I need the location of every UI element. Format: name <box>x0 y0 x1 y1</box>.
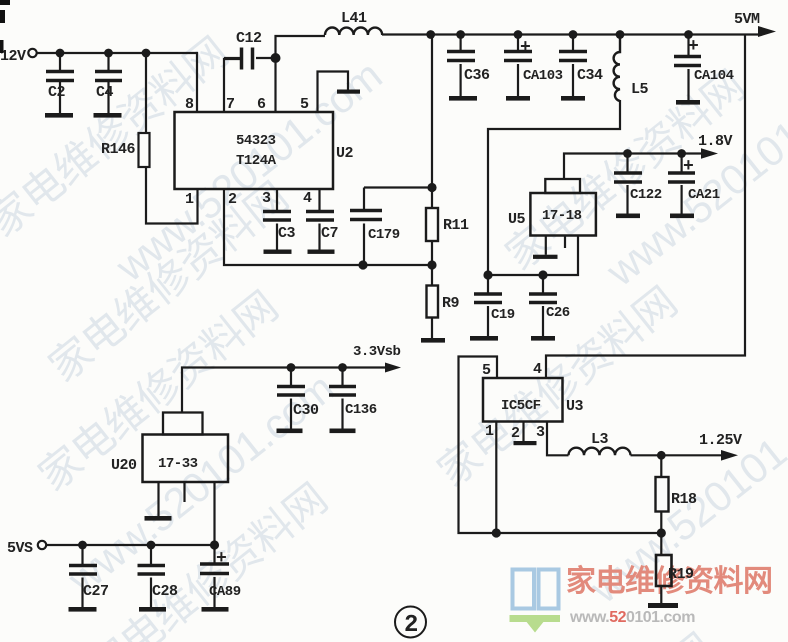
svg-text:U2: U2 <box>336 145 354 162</box>
svg-text:2: 2 <box>228 191 237 208</box>
op-amp U3 box <box>483 378 563 422</box>
capacitor C12 <box>224 48 253 70</box>
ground near U2 pin5 <box>337 90 360 94</box>
op-amp U2 box <box>175 112 334 189</box>
arrow 1.25V <box>721 450 738 461</box>
inductor L5 <box>614 35 620 102</box>
svg-text:C136: C136 <box>345 402 377 418</box>
regulator U5 <box>530 179 596 259</box>
svg-text:CA21: CA21 <box>688 187 720 203</box>
capacitor C30 <box>277 368 306 434</box>
svg-text:+: + <box>520 38 530 58</box>
resistor R18 <box>656 477 669 512</box>
wire: C12 right to node <box>256 57 276 59</box>
wire: C179 top link <box>364 186 432 188</box>
svg-text:6: 6 <box>257 96 266 113</box>
capacitor CA103 <box>504 35 532 101</box>
wire: U2 pin2 rail <box>224 189 432 265</box>
ground U3 pin2 <box>514 422 537 446</box>
svg-text:C19: C19 <box>491 307 515 323</box>
arrow 5VM <box>758 26 776 37</box>
capacitor C122 <box>614 154 642 219</box>
wire: 3.3Vsb rail <box>182 368 392 413</box>
svg-text:54323: 54323 <box>236 133 276 149</box>
terminal 12V <box>28 49 36 57</box>
wire: pin7 to C12 <box>224 59 241 112</box>
svg-text:R11: R11 <box>443 217 469 234</box>
svg-text:17-33: 17-33 <box>158 456 198 472</box>
wire: 5VS rail <box>46 482 215 545</box>
wire: R18 stems <box>660 455 662 533</box>
resistor R9 <box>421 286 445 343</box>
wire: R11 column <box>431 35 433 339</box>
svg-text:C3: C3 <box>278 225 296 242</box>
svg-text:4: 4 <box>533 361 542 378</box>
svg-text:L5: L5 <box>631 81 649 98</box>
svg-text:+: + <box>688 37 698 57</box>
svg-text:+: + <box>216 549 226 569</box>
svg-text:IC5CF: IC5CF <box>501 398 541 414</box>
svg-text:5: 5 <box>300 96 309 113</box>
wire: L41 to rail <box>382 33 762 35</box>
svg-text:T124A: T124A <box>236 153 277 169</box>
svg-text:R18: R18 <box>671 491 697 508</box>
svg-text:2: 2 <box>511 425 520 442</box>
regulator U20 <box>143 413 229 521</box>
svg-text:L3: L3 <box>591 431 609 448</box>
capacitor CA104 <box>674 35 701 105</box>
capacitor C3 <box>263 189 292 254</box>
svg-text:C26: C26 <box>546 305 570 321</box>
svg-text:U20: U20 <box>111 457 137 474</box>
capacitor C2 <box>45 53 74 118</box>
wire: L5 down-left feed to U5 rail <box>488 100 620 275</box>
svg-text:C4: C4 <box>96 84 114 101</box>
svg-text:2: 2 <box>404 612 418 639</box>
svg-text:5VM: 5VM <box>734 11 760 28</box>
capacitor C26 <box>529 275 557 341</box>
arrow 1.8V <box>701 148 718 158</box>
wire: U2 pin1 loop <box>146 167 198 224</box>
page number 2 circled <box>395 607 426 640</box>
capacitor C4 <box>94 53 123 118</box>
svg-text:C12: C12 <box>236 30 262 47</box>
svg-text:C2: C2 <box>48 84 66 101</box>
wire: pin5 to ground <box>318 72 349 113</box>
svg-text:CA103: CA103 <box>523 68 563 84</box>
wire: R19 stems <box>660 533 662 603</box>
capacitor C36 <box>447 35 477 101</box>
svg-text:1.8V: 1.8V <box>698 133 733 150</box>
svg-text:C122: C122 <box>630 187 662 203</box>
svg-text:+: + <box>683 157 693 177</box>
svg-text:12V: 12V <box>0 48 26 65</box>
svg-text:U5: U5 <box>508 211 526 228</box>
wire: L3 out to 1.25V <box>631 454 727 456</box>
inductor L41 <box>325 28 382 35</box>
scan specks <box>0 0 10 53</box>
capacitor C179 <box>350 188 382 266</box>
svg-text:C179: C179 <box>368 227 400 243</box>
svg-text:5VS: 5VS <box>7 540 33 557</box>
resistor R146 <box>139 53 150 167</box>
svg-text:C28: C28 <box>152 583 178 600</box>
svg-text:3: 3 <box>262 190 271 207</box>
resistor R19 <box>648 555 678 608</box>
wire: U5 input rail <box>488 236 578 276</box>
inductor L3 <box>569 448 631 456</box>
svg-text:www.520101.com: www.520101.com <box>569 609 695 626</box>
capacitor C7 <box>306 189 335 254</box>
svg-text:CA89: CA89 <box>209 584 241 600</box>
svg-text:C27: C27 <box>83 583 109 600</box>
svg-text:5: 5 <box>482 362 491 379</box>
wire: 12V rail <box>37 53 198 112</box>
svg-text:C30: C30 <box>293 402 319 419</box>
wire: U3 pin3 to L3 <box>547 422 569 456</box>
wire: 1.8V riser <box>564 154 707 180</box>
capacitor C19 <box>470 275 502 341</box>
svg-text:1.25V: 1.25V <box>699 432 742 449</box>
svg-text:R19: R19 <box>668 566 694 583</box>
wire: right edge vertical to U3 pin4 <box>546 35 745 379</box>
wire: U3 pin5 loop <box>459 357 662 534</box>
svg-text:C34: C34 <box>577 67 603 84</box>
logo book icon <box>510 570 561 633</box>
svg-text:L41: L41 <box>341 10 367 27</box>
svg-text:3: 3 <box>536 424 545 441</box>
terminal 5VS <box>38 541 46 549</box>
capacitor CA89 <box>200 545 229 612</box>
svg-text:17-18: 17-18 <box>542 208 582 224</box>
capacitor C28 <box>138 545 167 612</box>
svg-text:8: 8 <box>185 96 194 113</box>
svg-text:R146: R146 <box>101 141 136 158</box>
capacitor C136 <box>329 368 356 434</box>
arrow 3.3Vsb <box>385 363 401 373</box>
svg-text:7: 7 <box>226 96 235 113</box>
svg-text:3.3Vsb: 3.3Vsb <box>353 344 401 360</box>
capacitor C34 <box>559 35 587 101</box>
svg-text:4: 4 <box>303 190 312 207</box>
svg-text:R9: R9 <box>442 295 460 312</box>
svg-text:C7: C7 <box>321 225 338 242</box>
svg-text:U3: U3 <box>566 398 584 415</box>
svg-text:1: 1 <box>485 423 494 440</box>
capacitor C27 <box>69 545 98 612</box>
wire: pin6 riser <box>276 36 326 112</box>
svg-text:1: 1 <box>185 191 194 208</box>
resistor R11 <box>426 208 438 241</box>
capacitor CA21 <box>668 154 695 219</box>
wire: U3 pin1 <box>495 422 497 534</box>
svg-text:CA104: CA104 <box>694 68 734 84</box>
svg-text:C36: C36 <box>464 67 490 84</box>
